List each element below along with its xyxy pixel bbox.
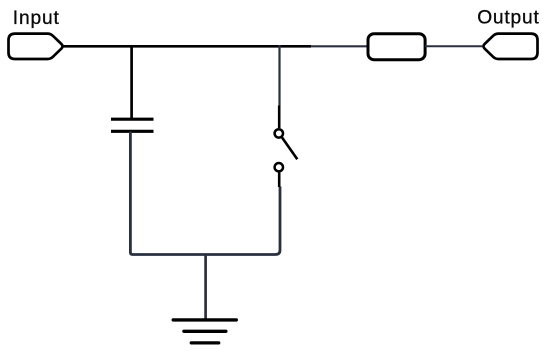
ground top bar (173, 318, 236, 321)
switch SW1 bottom contact circle (275, 163, 283, 171)
wire top rail: input tip to switch junction area (64, 45, 312, 48)
switch SW1 blade (282, 137, 298, 159)
wire: resistor right to output tip (425, 45, 482, 47)
svg-text:Input: Input (13, 8, 60, 29)
capacitor C1 top plate (111, 118, 154, 121)
ground middle bar (184, 330, 226, 333)
wire: top rail to resistor left (311, 45, 368, 47)
switch SW1 upper lead (278, 106, 281, 129)
svg-text:Output: Output (477, 8, 539, 29)
wire: switch top lead (junction to switch) (278, 45, 280, 106)
capacitor C1 bottom plate (111, 130, 154, 133)
wire: capacitor bottom to bottom rail to switch bottom (130, 132, 280, 255)
ground bottom bar (191, 341, 218, 344)
port Input (9, 34, 63, 59)
switch SW1 lower lead (278, 173, 281, 188)
resistor R1 (368, 34, 425, 60)
wire: ground stem (204, 255, 207, 319)
wire: capacitor top lead (junction to top plate) (130, 45, 133, 119)
switch SW1 top contact circle (275, 129, 283, 137)
port Output (483, 34, 537, 59)
